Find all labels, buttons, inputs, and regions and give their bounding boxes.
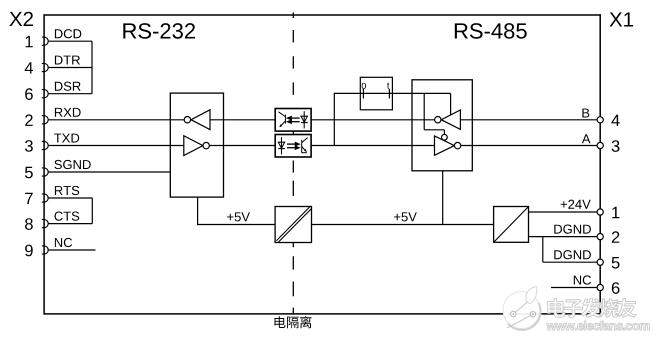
wire bracket DCD-DTR-DSR bbox=[91, 41, 93, 93]
pin X1-2 circle bbox=[597, 234, 603, 240]
wire: bottom bus bbox=[44, 313, 601, 315]
pin number 4 bbox=[25, 62, 33, 73]
pin X2-2 (RXD) socket bbox=[42, 116, 48, 124]
optocoupler OC1 light arrows (left) bbox=[288, 117, 300, 124]
wire TXD tap to timer bbox=[333, 93, 335, 146]
watermark logo bbox=[503, 287, 541, 330]
wire +24V bbox=[529, 211, 598, 213]
optocoupler OC1 LED bbox=[301, 111, 308, 128]
wire DGND to pin X1-5 bbox=[543, 261, 597, 263]
label RS-485 bbox=[455, 23, 527, 39]
wire TXD optocoupler OC2 to U2 driver input bbox=[311, 145, 434, 147]
wire DCD bbox=[48, 40, 92, 42]
monoflop timer box 0-t bbox=[360, 77, 392, 110]
DC-DC converter isolated (double diagonal) bbox=[275, 207, 311, 243]
pin number 8 bbox=[25, 218, 33, 230]
optocoupler OC2 (TXD path) box bbox=[275, 135, 311, 158]
pin X2-9 (NC) socket bbox=[42, 246, 48, 254]
wire SGND bbox=[48, 171, 170, 173]
optocoupler OC1 (RXD path) box bbox=[275, 109, 311, 132]
RS-485 transceiver U2 box bbox=[412, 80, 472, 171]
pin number 3 bbox=[25, 140, 33, 152]
wire CTS bbox=[48, 223, 92, 225]
wire DGND to pin X1-2 bbox=[529, 236, 598, 238]
wire +5V isolated rail bbox=[198, 224, 276, 226]
pin number 9 bbox=[25, 245, 33, 257]
label SGND bbox=[54, 160, 90, 169]
wire DTR bbox=[48, 67, 92, 69]
label NC bbox=[55, 238, 72, 247]
label +24V bbox=[561, 200, 591, 209]
pin number 2 bbox=[25, 114, 33, 126]
label RS-232 bbox=[123, 23, 195, 39]
wire timer line to U2 enable bbox=[334, 92, 450, 94]
buffer U1B RS-232 driver (inverter, points right) bbox=[184, 136, 210, 156]
optocoupler OC1 phototransistor bbox=[278, 112, 285, 128]
label A bbox=[582, 134, 591, 143]
isolation barrier dashed line bbox=[292, 13, 294, 314]
pin X1-4 circle bbox=[597, 117, 603, 123]
watermark url www.elecfans.com bbox=[547, 321, 650, 330]
label RXD bbox=[55, 108, 81, 117]
pin number 6 bbox=[25, 88, 33, 100]
pin X1-5 circle bbox=[597, 259, 603, 265]
wire TXD from pin3 to driver input bbox=[48, 145, 183, 147]
wire TXD driver output to optocoupler OC2 bbox=[210, 145, 276, 147]
pin number X1-5 bbox=[612, 257, 620, 269]
wire DSR bbox=[48, 93, 92, 95]
wire RTS bbox=[48, 197, 92, 199]
wire NC bbox=[48, 249, 95, 251]
label X2 bbox=[9, 12, 33, 26]
label isolation 电隔离 bbox=[275, 316, 312, 328]
label X1 bbox=[610, 12, 634, 26]
connector X1 bus wire bbox=[599, 14, 601, 314]
timer label 0 bbox=[362, 83, 366, 89]
pin X1-3 circle bbox=[597, 142, 603, 148]
wire RXD from pin2 to receiver output bbox=[48, 119, 184, 121]
watermark text 电子发烧友 bbox=[548, 298, 636, 317]
wire A net U2 to pin X1-3 bbox=[461, 145, 597, 147]
timer tick t bbox=[388, 89, 390, 98]
pin number X1-4 bbox=[611, 115, 619, 126]
label DGND 2 bbox=[554, 250, 591, 259]
wire B net U2 to pin X1-4 bbox=[460, 119, 597, 121]
wire NC pin X1-6 bbox=[551, 287, 597, 289]
wire +5V drop from U2 bbox=[442, 171, 444, 225]
pin X1-1 circle bbox=[597, 209, 603, 215]
DC-DC converter 24V to 5V (single diagonal) bbox=[494, 207, 529, 243]
connector X2 bus wire bbox=[43, 14, 45, 314]
wire +5V RS-485 side rail bbox=[312, 224, 494, 226]
pin X2-6 (DSR) socket bbox=[42, 90, 48, 98]
label TXD bbox=[54, 134, 79, 143]
pin number 5 bbox=[25, 167, 33, 179]
pin X2-3 (TXD) socket bbox=[42, 141, 48, 149]
RS-232 transceiver U1 box bbox=[170, 93, 223, 197]
pin X2-4 (DTR) socket bbox=[42, 63, 48, 71]
buffer U2B RS-485 driver (points right) bbox=[435, 134, 461, 155]
timer tick 0 bbox=[362, 89, 364, 98]
optocoupler OC2 LED bbox=[278, 137, 285, 154]
label NC right bbox=[574, 275, 591, 284]
timer label t bbox=[387, 83, 389, 89]
pin number X1-3 bbox=[612, 140, 620, 152]
label +5V left bbox=[227, 212, 250, 221]
pin X1-6 circle bbox=[597, 284, 603, 290]
pin number 7 bbox=[25, 193, 33, 204]
label DGND 1 bbox=[554, 225, 591, 234]
wire: top bus X2-X1 bbox=[44, 14, 601, 16]
label DTR bbox=[55, 56, 80, 65]
pin X2-5 (SGND) socket bbox=[42, 168, 48, 176]
label DSR bbox=[55, 82, 81, 91]
pin X2-8 (CTS) socket bbox=[42, 220, 48, 228]
optocoupler OC2 light arrows (right) bbox=[287, 143, 299, 150]
wire DGND bracket bbox=[542, 237, 544, 263]
wire RXD receiver input to optocoupler OC1 bbox=[210, 119, 275, 121]
label RTS bbox=[55, 186, 79, 195]
label DCD bbox=[55, 29, 81, 38]
label B bbox=[582, 109, 589, 118]
buffer U1A RS-232 receiver (inverter, points left) bbox=[184, 110, 210, 130]
pin number X1-1 bbox=[612, 207, 619, 218]
pin X2-7 (RTS) socket bbox=[42, 194, 48, 202]
buffer U2A RS-485 receiver (points left) bbox=[435, 110, 461, 129]
wire between optocoupler boxes bbox=[292, 131, 294, 134]
pin number 1 bbox=[26, 36, 33, 47]
label +5V right bbox=[394, 212, 417, 221]
optocoupler OC2 phototransistor bbox=[302, 138, 308, 153]
pin number X1-2 bbox=[612, 231, 620, 243]
wire U2 receiver enable feedback bbox=[424, 93, 450, 134]
wire bracket RTS-CTS bbox=[91, 198, 93, 224]
pin number X1-6 bbox=[612, 282, 620, 294]
pin X2-1 (DCD) socket bbox=[42, 37, 48, 45]
label CTS bbox=[55, 212, 80, 221]
wire +5V drop from U1 bbox=[197, 197, 199, 225]
wire RXD optocoupler OC1 to U2 receiver output bbox=[311, 119, 435, 121]
